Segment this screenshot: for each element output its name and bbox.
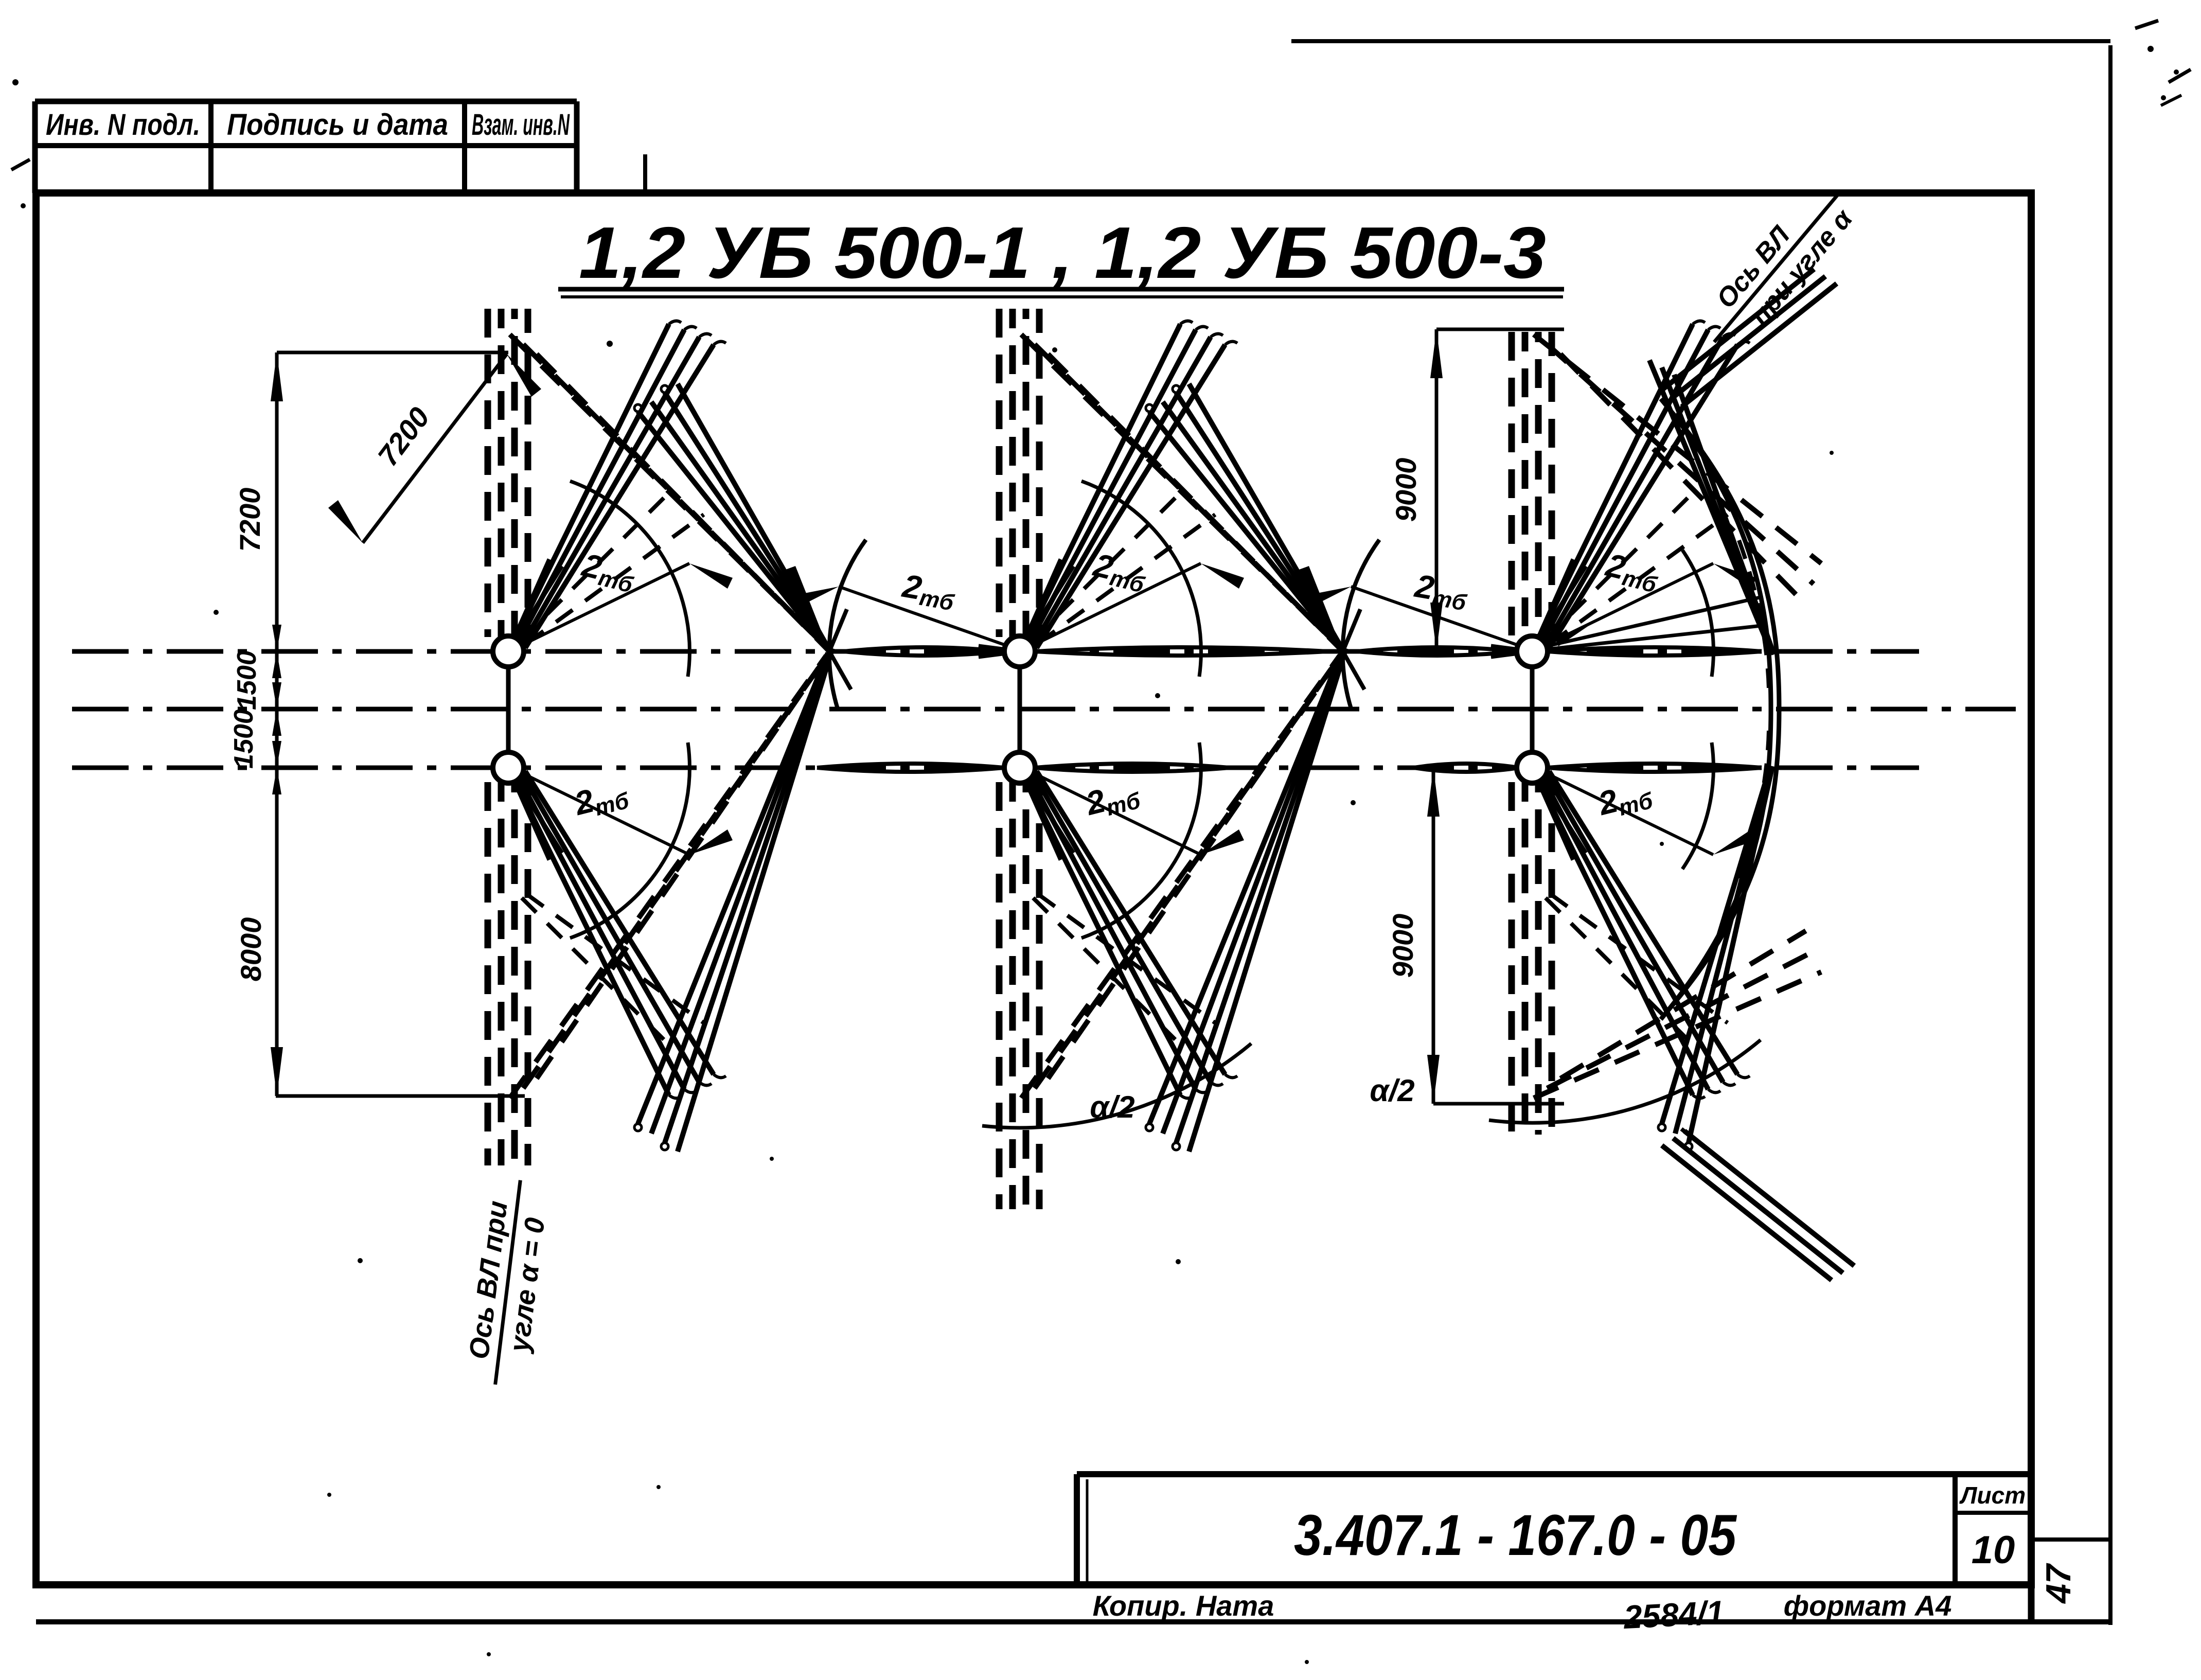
dimension: alpha/2 arc group 3 bbox=[1370, 1040, 1761, 1123]
wire: guy bundle S2 upper to anchor bbox=[1146, 384, 1345, 653]
wire: fan lines to arc bbox=[1546, 597, 1766, 649]
dimension: guy tension ray 2tb lower bbox=[1036, 773, 1244, 855]
wire: dashed guys D1 upper at alpha=0 bbox=[1546, 491, 1728, 643]
wire: guy bundle S1 lower bbox=[1539, 771, 1750, 1098]
box: page number 47 bbox=[2031, 1540, 2110, 1622]
dimension: guy tension ray 2tb upper bbox=[525, 546, 733, 644]
svg-text:Лист: Лист bbox=[1959, 1482, 2026, 1509]
wire: pole connecting line group 2 bbox=[1018, 666, 1022, 753]
wire: line axis at angle alpha lower (3 lines) bbox=[1662, 1129, 1854, 1280]
wire: dashed guys D2 lower bbox=[1021, 649, 1345, 1098]
node: anchor at (1612,1266) bbox=[784, 540, 866, 733]
label: document number 3.407.1-167.0-05 bbox=[1294, 1503, 1737, 1567]
wire: group 3 guy arc bow bbox=[1661, 399, 1779, 1019]
svg-text:Взам. инв.N: Взам. инв.N bbox=[472, 108, 570, 142]
pole circle group 2 upper bbox=[1004, 636, 1035, 667]
pole axis dashed bundle group 1 lower bbox=[488, 782, 528, 1165]
svg-text:9000: 9000 bbox=[1390, 458, 1422, 522]
wire: guy bundle S1 lower bbox=[1026, 771, 1237, 1098]
svg-text:8000: 8000 bbox=[235, 917, 267, 982]
wire: upper centerline (dash-dot) bbox=[72, 649, 1919, 654]
svg-text:Подпись и дата: Подпись и дата bbox=[227, 108, 448, 142]
wire: dashed guys D2 upper to arc bbox=[1534, 334, 1821, 605]
svg-text:1500: 1500 bbox=[232, 650, 262, 710]
label: sheet number 10 bbox=[1972, 1528, 2015, 1572]
node: anchor at (2610,1266) bbox=[1298, 540, 1379, 733]
outer border right line bbox=[2108, 45, 2113, 1625]
svg-text:7200: 7200 bbox=[234, 488, 266, 552]
wire: guy wedges at lower pole bbox=[514, 779, 562, 860]
wire: guy bundle S1 upper bbox=[515, 321, 726, 648]
wire: guy bundle S2 upper to arc bbox=[1649, 360, 1774, 655]
label: axis VL at angle alpha (rotated 45) bbox=[1689, 171, 1866, 364]
pole axis dashed bundle group 1 upper bbox=[488, 309, 528, 637]
wire: guy wedges at lower pole bbox=[1025, 779, 1073, 860]
pole circle group 3 lower bbox=[1517, 752, 1548, 783]
wire: lower centerline (dash-dot) bbox=[72, 766, 1919, 770]
wire: dashed guys D1 upper at alpha=0 bbox=[1033, 491, 1215, 643]
outer border top line bbox=[1291, 39, 2110, 43]
wire: dashed guys D1 lower at alpha=0 bbox=[522, 894, 704, 1046]
dimension: angle arc at lower pole bbox=[1081, 742, 1201, 938]
dimension: angle arc at upper pole bbox=[570, 481, 689, 677]
svg-text:9000: 9000 bbox=[1387, 914, 1419, 978]
dimension: angle arc at upper pole bbox=[1081, 481, 1201, 677]
wire: line axis at angle alpha (3 lines) bbox=[1662, 269, 1837, 406]
wire: middle centerline (dash-dot) bbox=[72, 707, 2016, 712]
dimension: angle arc at lower pole bbox=[570, 742, 689, 938]
dimension: 9000 upper group 3 bbox=[1390, 329, 1564, 651]
wire: dashed guys D1 upper at alpha=0 bbox=[522, 491, 704, 643]
title block: main rectangle bbox=[1077, 1474, 2031, 1585]
wire: guy bundle S1 upper bbox=[1026, 321, 1237, 648]
pole circle group 1 upper bbox=[493, 636, 524, 667]
wire: guy wedges at upper pole bbox=[514, 559, 562, 640]
label: Inv N podl bbox=[46, 108, 200, 142]
dimension: angle arc at upper pole bbox=[1682, 550, 1713, 677]
dimension: guy tension ray 2tb upper bbox=[1549, 546, 1756, 646]
pole circle group 3 upper bbox=[1517, 636, 1548, 667]
dimension: guy tension ray 2tb toward left anchor bbox=[794, 567, 1004, 645]
svg-text:47: 47 bbox=[2039, 1563, 2078, 1604]
svg-text:3.407.1 - 167.0 - 05: 3.407.1 - 167.0 - 05 bbox=[1294, 1503, 1737, 1567]
svg-text:Копир. Ната: Копир. Ната bbox=[1093, 1589, 1274, 1622]
label: Vzam inv N bbox=[472, 108, 570, 142]
svg-text:1500: 1500 bbox=[229, 709, 259, 769]
svg-text:α/2: α/2 bbox=[1090, 1090, 1134, 1124]
pole axis dashed bundle group 3 lower bbox=[1512, 782, 1552, 1135]
svg-text:2584/1: 2584/1 bbox=[1622, 1594, 1725, 1636]
wire: pole connecting line group 1 bbox=[506, 666, 511, 753]
pole axis dashed bundle group 2 upper bbox=[999, 309, 1039, 637]
wire: guy bundle S2 lower converging bbox=[634, 648, 832, 1152]
wire: guy wedges at lower pole bbox=[1538, 779, 1586, 860]
svg-text:формат А4: формат А4 bbox=[1784, 1589, 1952, 1622]
dimension: guy tension ray 2tb toward left anchor bbox=[1306, 567, 1517, 645]
wire: guy bundle S2 lower converging bbox=[1658, 766, 1772, 1150]
pole axis dashed bundle group 3 upper bbox=[1512, 332, 1552, 637]
title: 1,2 UB 500-1 , 1,2 UB 500-3 bbox=[558, 212, 1564, 297]
dimension: left vertical dimension line bbox=[271, 352, 525, 1096]
wire: guy wedges at upper pole bbox=[1491, 559, 1586, 657]
dimension: 9000 lower group 3 bbox=[1387, 768, 1564, 1104]
label: 2584/1 bbox=[1622, 1594, 1725, 1636]
wire: dashed guys D2 lower bbox=[1534, 931, 1821, 1098]
wire: anchor rod lenses on centerlines bbox=[817, 647, 1762, 772]
table: document info columns bbox=[35, 101, 577, 193]
wire: dashed guys D2 lower bbox=[510, 649, 831, 1098]
dimension: diagonal 7200 bbox=[328, 354, 541, 543]
svg-text:α/2: α/2 bbox=[1370, 1073, 1414, 1108]
wire: dashed guys D1 lower at alpha=0 bbox=[1033, 894, 1215, 1046]
short stub line on frame top bbox=[643, 154, 647, 193]
svg-text:1,2 УБ 500-1 , 1,2 УБ 500-3: 1,2 УБ 500-1 , 1,2 УБ 500-3 bbox=[579, 212, 1546, 294]
dimension: guy tension ray 2tb lower bbox=[1549, 773, 1756, 855]
wire: guy wedges at upper pole bbox=[979, 559, 1073, 657]
wire: guy bundle S1 lower bbox=[515, 771, 726, 1098]
dimension: angle arc at lower pole bbox=[1682, 742, 1713, 869]
label: axis VL at angle alpha=0 (rotated) bbox=[460, 1176, 555, 1389]
svg-text:10: 10 bbox=[1972, 1528, 2015, 1572]
dimension label 7200 vertical bbox=[234, 488, 266, 552]
wire: dashed guys D2 upper to anchor bbox=[510, 334, 831, 653]
drawing frame inner border bbox=[36, 193, 2031, 1585]
wire: dashed guys D2 upper to anchor bbox=[1021, 334, 1345, 653]
dimension label 1500 upper bbox=[232, 650, 262, 710]
wire: dashed guys D1 lower at alpha=0 bbox=[1546, 894, 1728, 1046]
wire: guy bundle S1 upper bbox=[1539, 321, 1750, 648]
label: List bbox=[1959, 1482, 2026, 1509]
pole axis dashed bundle group 2 lower bbox=[999, 782, 1039, 1209]
wire: pole connecting line group 3 bbox=[1530, 666, 1535, 753]
dimension label 8000 bbox=[235, 917, 267, 982]
label: Podpis i data bbox=[227, 108, 448, 142]
dimension: guy tension ray 2tb upper bbox=[1036, 546, 1244, 644]
pole circle group 2 lower bbox=[1004, 752, 1035, 783]
wire: guy bundle S2 upper to anchor bbox=[634, 384, 831, 653]
wire: guy bundle S2 lower converging bbox=[1146, 648, 1346, 1152]
label: format A4 bbox=[1784, 1589, 1952, 1622]
dimension label 1500 lower bbox=[229, 709, 259, 769]
svg-text:Инв. N подл.: Инв. N подл. bbox=[46, 108, 200, 142]
dimension: guy tension ray 2tb lower bbox=[525, 773, 733, 855]
outer border bottom line bbox=[36, 1619, 2110, 1624]
label: Kopir. Nata bbox=[1093, 1589, 1274, 1622]
dimension: alpha/2 arc group 2 bbox=[982, 1044, 1251, 1128]
pole circle group 1 lower bbox=[493, 752, 524, 783]
